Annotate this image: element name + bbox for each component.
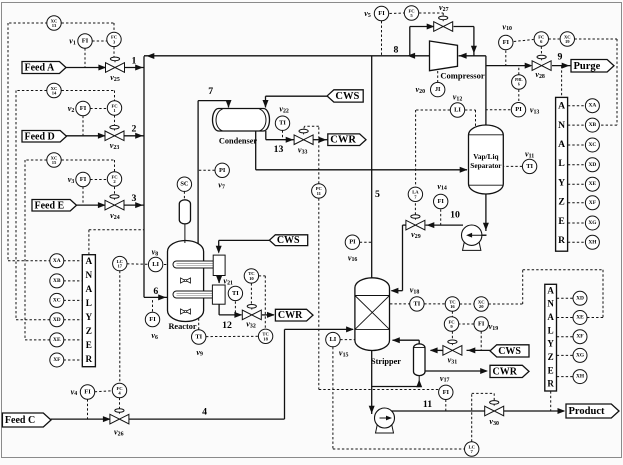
svg-text:v6: v6 (151, 331, 158, 341)
svg-text:R: R (86, 354, 93, 364)
svg-text:TI: TI (279, 120, 286, 127)
svg-text:XD: XD (576, 295, 584, 301)
svg-text:E: E (86, 340, 92, 350)
svg-text:A: A (558, 101, 565, 112)
svg-text:19: 19 (565, 39, 570, 44)
svg-text:XD: XD (53, 317, 61, 323)
svg-text:XE: XE (589, 181, 597, 187)
svg-text:13: 13 (274, 144, 284, 155)
svg-text:FI: FI (478, 321, 485, 328)
svg-text:14: 14 (52, 91, 57, 96)
svg-text:XH: XH (588, 239, 597, 245)
svg-text:11: 11 (317, 191, 322, 196)
svg-text:FI: FI (503, 39, 510, 46)
svg-text:XF: XF (53, 357, 61, 363)
svg-text:v29: v29 (411, 230, 421, 240)
svg-text:5: 5 (375, 189, 380, 200)
svg-text:v5: v5 (364, 9, 371, 19)
svg-text:10: 10 (249, 276, 254, 281)
svg-text:XF: XF (576, 334, 584, 340)
svg-text:Feed C: Feed C (5, 415, 35, 426)
svg-text:FI: FI (149, 316, 156, 323)
svg-text:XA: XA (53, 258, 61, 264)
svg-text:v11: v11 (525, 150, 534, 160)
svg-text:FI: FI (437, 198, 444, 205)
svg-text:Y: Y (86, 312, 93, 322)
svg-text:A: A (86, 284, 93, 294)
svg-text:XB: XB (53, 278, 61, 284)
svg-text:v25: v25 (110, 73, 120, 83)
svg-text:18: 18 (263, 336, 268, 341)
svg-text:E: E (558, 216, 564, 227)
svg-text:XG: XG (588, 220, 597, 226)
svg-text:FI: FI (84, 389, 91, 396)
svg-text:A: A (547, 285, 554, 295)
svg-text:v31: v31 (448, 356, 458, 366)
svg-text:JI: JI (435, 86, 441, 93)
svg-text:v10: v10 (502, 22, 512, 32)
svg-text:Separator: Separator (470, 161, 502, 170)
svg-text:E: E (548, 365, 554, 375)
svg-text:LI: LI (330, 336, 337, 343)
svg-text:FI: FI (80, 105, 87, 112)
svg-text:CWR: CWR (278, 310, 303, 321)
svg-text:v14: v14 (437, 182, 447, 192)
svg-text:4: 4 (202, 407, 207, 418)
svg-text:N: N (86, 270, 93, 280)
svg-text:13: 13 (52, 23, 57, 28)
svg-text:Reactor: Reactor (168, 322, 196, 331)
svg-text:v4: v4 (71, 387, 78, 397)
svg-text:FI: FI (80, 176, 87, 183)
svg-text:8: 8 (393, 45, 398, 56)
svg-text:CWS: CWS (277, 235, 300, 246)
svg-text:v30: v30 (489, 417, 499, 427)
svg-text:TI: TI (232, 290, 239, 297)
svg-text:v22: v22 (279, 105, 289, 115)
svg-text:XG: XG (576, 352, 585, 358)
svg-text:XE: XE (576, 315, 584, 321)
svg-text:v15: v15 (339, 349, 349, 359)
svg-text:v2: v2 (68, 104, 75, 114)
svg-text:v9: v9 (196, 348, 203, 358)
svg-text:CWR: CWR (330, 135, 356, 146)
svg-text:15: 15 (52, 160, 57, 165)
svg-text:v23: v23 (110, 141, 120, 151)
svg-text:L: L (548, 325, 554, 335)
svg-text:SC: SC (180, 181, 189, 188)
svg-text:1: 1 (132, 56, 137, 67)
svg-text:v16: v16 (348, 253, 358, 263)
svg-text:PI: PI (219, 167, 226, 174)
svg-text:v24: v24 (110, 211, 120, 221)
svg-text:v27: v27 (439, 3, 449, 13)
svg-text:CWR: CWR (493, 366, 518, 377)
svg-text:TI: TI (195, 334, 202, 341)
svg-text:A: A (558, 139, 565, 150)
svg-text:11: 11 (423, 399, 432, 410)
svg-text:Y: Y (547, 339, 554, 349)
svg-text:Y: Y (558, 177, 565, 188)
svg-text:FI: FI (443, 389, 450, 396)
svg-text:v19: v19 (489, 322, 499, 332)
svg-text:Purge: Purge (574, 61, 601, 72)
svg-text:N: N (547, 299, 554, 309)
svg-text:TI: TI (526, 163, 533, 170)
svg-text:CWS: CWS (498, 346, 521, 357)
svg-text:10: 10 (450, 210, 460, 221)
svg-text:12: 12 (222, 320, 232, 331)
svg-text:Condenser: Condenser (219, 137, 258, 146)
svg-text:TI: TI (414, 300, 421, 307)
svg-text:A: A (86, 256, 93, 266)
svg-text:XF: XF (589, 200, 597, 206)
svg-text:2: 2 (132, 123, 137, 134)
svg-text:PI: PI (349, 239, 356, 246)
svg-text:v8: v8 (152, 248, 159, 258)
svg-text:Stripper: Stripper (371, 357, 401, 366)
svg-text:6: 6 (153, 286, 158, 297)
svg-text:CWS: CWS (335, 91, 359, 102)
svg-text:R: R (558, 235, 566, 246)
svg-text:17: 17 (118, 264, 123, 269)
svg-text:XC: XC (589, 142, 597, 148)
svg-text:v20: v20 (416, 85, 426, 95)
svg-text:FI: FI (378, 10, 385, 17)
svg-text:v3: v3 (68, 175, 75, 185)
svg-text:9: 9 (558, 52, 563, 63)
svg-text:v12: v12 (453, 93, 463, 103)
svg-text:v17: v17 (440, 374, 450, 384)
svg-text:16: 16 (450, 304, 455, 309)
svg-text:PI: PI (515, 106, 522, 113)
svg-text:Feed A: Feed A (25, 63, 55, 74)
svg-text:6: 6 (518, 83, 520, 87)
svg-text:v33: v33 (298, 146, 308, 156)
svg-text:Z: Z (548, 352, 554, 362)
svg-text:XA: XA (589, 103, 597, 109)
svg-text:v21: v21 (223, 277, 233, 287)
svg-text:Feed E: Feed E (35, 200, 65, 211)
svg-text:Z: Z (86, 326, 92, 336)
svg-text:20: 20 (479, 304, 484, 309)
svg-text:7: 7 (208, 86, 213, 97)
svg-text:v26: v26 (114, 428, 124, 438)
svg-text:3: 3 (132, 193, 137, 204)
svg-text:XD: XD (589, 162, 597, 168)
svg-text:v7: v7 (218, 181, 225, 191)
svg-text:N: N (558, 120, 565, 131)
svg-text:v18: v18 (410, 286, 420, 296)
svg-text:LI: LI (152, 261, 159, 268)
svg-text:v28: v28 (535, 70, 545, 80)
svg-text:R: R (547, 379, 554, 389)
svg-text:XH: XH (576, 374, 585, 380)
svg-text:XE: XE (53, 337, 61, 343)
svg-text:Feed D: Feed D (25, 131, 55, 142)
svg-text:Z: Z (558, 197, 564, 208)
svg-text:A: A (547, 312, 554, 322)
svg-text:v1: v1 (69, 37, 76, 47)
svg-text:L: L (558, 158, 564, 169)
svg-text:Compressor: Compressor (440, 71, 484, 81)
svg-text:LI: LI (454, 107, 461, 114)
svg-text:L: L (86, 298, 92, 308)
svg-text:v13: v13 (530, 106, 540, 116)
svg-text:Vap/Liq: Vap/Liq (473, 152, 498, 161)
svg-text:FI: FI (82, 38, 89, 45)
svg-text:XB: XB (589, 122, 597, 128)
svg-text:PHL: PHL (515, 78, 523, 82)
svg-text:XC: XC (53, 297, 61, 303)
svg-text:v32: v32 (246, 320, 256, 330)
svg-text:Product: Product (569, 406, 605, 417)
